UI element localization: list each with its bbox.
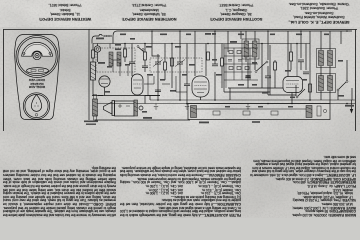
ground symbols [154,104,250,110]
node cabinet outline [15,35,60,120]
node dial outer ring [16,36,58,78]
coil L2 hum bucking [134,100,143,116]
resistor R10 [309,84,312,92]
node knob ring [23,93,49,119]
wire audio bottom rail [92,95,160,97]
capacitor C10 [298,60,304,70]
node end terminal [317,106,327,116]
node dial inner ring [18,37,56,75]
lamp P1 pilot [94,44,100,63]
transformer T3 lower windings [317,66,336,104]
capacitor C2 [142,60,148,72]
transformer T1 IF [242,31,259,70]
wire extra verticals [110,44,187,96]
node wave-switch ladder bank [224,44,258,88]
capacitor C8 [245,76,251,78]
node column drive-cord text [3,129,116,216]
resistor R5 [171,58,174,66]
switch S1 wavechange [137,46,144,53]
node field coil box [115,101,135,116]
node western-depot-address [33,3,97,21]
wire chassis bottom rail [95,119,190,121]
wire heater rail lower [95,103,355,105]
resistor R7 [221,58,224,88]
capacitor C9 [265,66,271,95]
node head-office-address [279,2,359,24]
node maker plaque ellipse [27,68,49,74]
node cabinet caption [20,77,54,88]
wire cord line [197,108,307,110]
valve V4 output pentode [283,31,303,104]
wire HT+ top rail [113,31,352,36]
wire grid link [113,36,132,76]
capacitor C6 [184,44,190,104]
node column chassis-removal text [120,127,241,216]
node northern-depot-address [111,3,187,21]
capacitor C3 variable [153,54,163,70]
wire if couplings [241,31,296,95]
wire detector line [228,88,283,100]
node mains arrow [350,100,353,114]
valve V1 triode circle [99,76,110,96]
wire column divider [88,30,90,121]
wire speaker leads [98,96,160,104]
wire right frame rule [355,30,357,132]
resistor R1 [92,50,95,58]
coil L4 drive drum right [306,106,312,118]
switch S4 [296,89,305,98]
valve V2 AF pentode [132,74,144,96]
coil L6 bandpass secondary [117,52,121,66]
node component value labels [84,33,354,125]
wire aerial lead [104,35,109,37]
wire left frame rule [3,30,5,132]
wire osc section [158,31,180,100]
resistor R4 [164,62,167,70]
wire junction column [152,31,160,56]
resistor R9 [290,44,293,71]
wire top frame rule [3,29,357,31]
wire mains feed [341,31,352,100]
transformer T4 output [93,95,98,121]
resistor R8 [274,60,277,88]
wire detector bus [224,44,270,92]
resistor R6 [207,52,210,60]
node knob pointer [31,95,41,112]
coil L3 drive drum [191,106,197,118]
switch S2 [255,61,268,73]
resistor R3 [144,44,147,61]
wire screen rail [93,43,310,45]
antenna A [92,34,112,43]
coil L1 aerial [91,44,96,96]
node coil-can dashed box [96,48,135,72]
node cord guide tabs [213,111,220,115]
capacitor C5 [155,90,161,92]
wire anode feeds [215,31,228,100]
node scottish-depot-address [200,3,272,21]
valve V3 frequency changer [192,31,209,100]
node tuning scale half-disc [22,42,53,56]
transformer T3 upper windings [317,31,336,68]
wire smoothing cluster [296,31,310,100]
capacitor C4 variable [175,54,185,70]
node scale end marks [23,52,25,54]
node tuning gang dashed [150,58,202,72]
resistor R2 [124,44,127,63]
node dial hub bullseye [33,52,41,60]
junction dots [124,30,348,104]
wire heater rail upper [150,99,355,101]
capacitor C1 [129,56,135,70]
switch S3 mains [337,60,348,100]
coil L5 bandpass primary [109,52,113,66]
capacitor C7 [212,64,218,66]
node dial backplate [188,104,330,120]
capacitor C11 [303,72,309,74]
speaker LS1 [104,101,115,116]
node column specifications text [250,119,356,216]
